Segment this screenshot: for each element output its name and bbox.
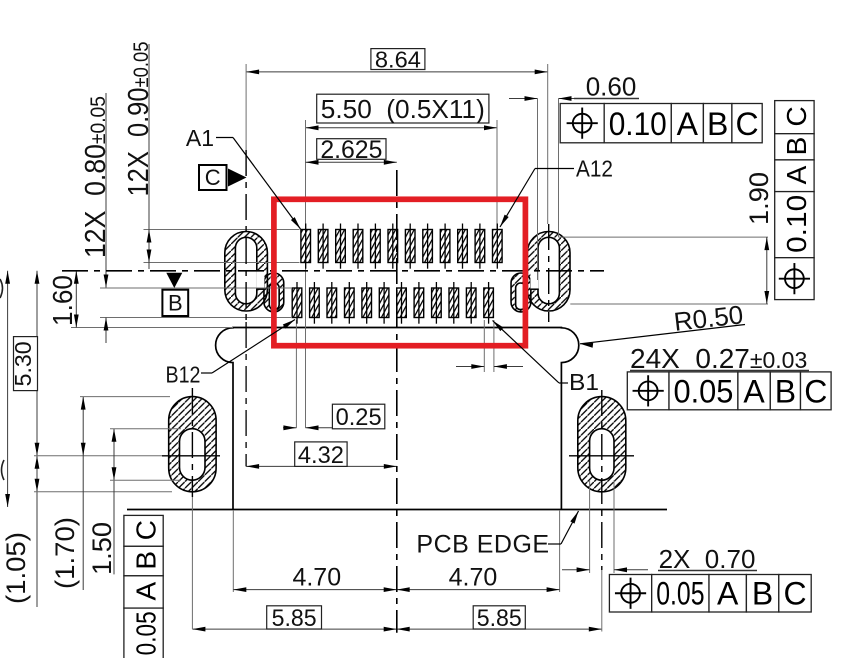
svg-text:C: C — [804, 373, 827, 409]
dimension 5.50 line — [306, 125, 498, 130]
svg-text:A: A — [130, 582, 161, 601]
dimension 1.60 line — [74, 271, 79, 328]
label PCB EDGE — [416, 511, 578, 559]
dimension 24X 0.27 arrows — [456, 364, 523, 369]
dimension text 1.60 — [47, 275, 78, 326]
label A12 — [500, 156, 613, 228]
dimension text 4.32 — [295, 442, 347, 469]
dimension text 0.60 — [574, 72, 639, 102]
extension 1.90 bottom — [570, 303, 768, 305]
FCF vertical 0.10 A B C (right) — [775, 101, 814, 300]
dimension 8.64 line — [246, 70, 548, 75]
mount pad B1-side oval — [578, 397, 626, 492]
dimension text (1.70) — [50, 517, 80, 589]
svg-text:A: A — [781, 165, 812, 184]
svg-text:(1.05): (1.05) — [1, 532, 31, 604]
dimension 12X 0.80 line — [104, 93, 109, 343]
svg-text:A12: A12 — [576, 156, 613, 182]
svg-text:0.10: 0.10 — [609, 106, 667, 142]
dimension text 5.50 (0.5X11) — [317, 94, 489, 124]
extension 5.50 right (pad A12 center) — [496, 120, 498, 230]
shell slot right (plated) — [511, 232, 570, 313]
extension slot center below — [245, 322, 247, 466]
extension (1.05) bottom / oval bottom — [34, 491, 172, 493]
extension pad B1 right — [493, 320, 495, 372]
dimension 4.70 left — [233, 587, 396, 592]
left slot centerline — [245, 150, 247, 322]
svg-text:5.85: 5.85 — [477, 605, 522, 632]
svg-text:8.64: 8.64 — [375, 46, 421, 72]
extension 5.50 left (pad A1 center) — [305, 120, 307, 428]
extension oval slot left edge — [589, 480, 591, 573]
cut-off paren of (6.70) text — [0, 279, 4, 480]
extension body left edge below — [232, 510, 234, 592]
svg-text:5.50 (0.5X11): 5.50 (0.5X11) — [321, 94, 485, 124]
dimension text 5.85 left — [267, 605, 322, 632]
red highlight box — [274, 199, 526, 345]
vertical centerline — [396, 170, 398, 633]
extension oval slot right edge — [613, 480, 615, 573]
datum C symbol — [199, 165, 247, 190]
extension slot hole right edge — [558, 99, 560, 238]
dimension 5.30 line — [35, 271, 40, 607]
dimension text 2.625 — [317, 136, 386, 164]
svg-text:B: B — [781, 137, 812, 156]
datum B symbol — [162, 273, 188, 316]
body flange top extension (1.60) — [71, 327, 233, 329]
pad row A (A1-A12, hatched SMT pads) — [301, 224, 502, 269]
svg-text:C: C — [130, 520, 161, 540]
dimension text 8.64 — [371, 46, 425, 72]
dimension 0.25 line — [283, 425, 332, 430]
dimension text 12X 0.80±0.05 — [80, 96, 112, 258]
FCF position 0.10 A B C (top right) — [560, 104, 762, 143]
svg-text:A: A — [717, 576, 739, 612]
left oval centerline — [191, 388, 193, 629]
svg-text:C: C — [783, 576, 806, 612]
extension 1.50 top / slot top — [110, 428, 181, 430]
extension line 12X0.80 bottom (pad row B bottom) — [100, 317, 291, 319]
svg-text:0.60: 0.60 — [586, 72, 637, 102]
label A1 — [186, 125, 301, 229]
dimension text 4.70 left — [292, 564, 341, 592]
svg-text:C: C — [205, 165, 221, 190]
svg-text:1.60: 1.60 — [47, 275, 78, 326]
extension 1.90 top — [559, 236, 769, 238]
right slot centerline — [548, 224, 550, 322]
svg-text:0.05: 0.05 — [656, 576, 704, 612]
oval center horizontal extension — [34, 455, 220, 457]
extension line 12X0.90 top (pad row A top) — [144, 229, 300, 231]
extension 8.64 right (slot center) — [547, 64, 549, 224]
dimension text 0.25 — [332, 404, 384, 431]
dimension (1.70) line — [81, 397, 86, 590]
svg-text:B: B — [752, 576, 773, 612]
svg-text:0.25: 0.25 — [336, 404, 382, 431]
dimension text 2X 0.70 — [658, 544, 757, 574]
dimension 4.70 right — [397, 587, 560, 592]
dimension text 24X 0.27±0.03 — [630, 343, 809, 374]
dimension text 5.85 right — [473, 605, 525, 632]
FCF position 0.05 A B C (24X pads) — [627, 372, 831, 410]
svg-text:4.70: 4.70 — [292, 564, 341, 592]
svg-text:4.32: 4.32 — [298, 442, 344, 469]
svg-text:4.70: 4.70 — [449, 564, 498, 592]
dimension text 1.90 — [744, 172, 774, 225]
svg-text:A: A — [743, 373, 765, 409]
right oval centerline — [601, 390, 603, 632]
right oval horizontal center tick — [569, 455, 634, 457]
pad row B (B12-B1, hatched SMT pads) — [292, 282, 493, 324]
PCB edge line — [127, 509, 667, 511]
svg-text:24X 0.27±0.03: 24X 0.27±0.03 — [630, 343, 807, 374]
label B1 — [493, 321, 600, 396]
svg-text:PCB EDGE: PCB EDGE — [416, 531, 549, 559]
svg-text:5.30: 5.30 — [10, 341, 36, 386]
svg-text:B: B — [707, 106, 728, 142]
extension pad B1 left — [483, 320, 485, 372]
svg-text:C: C — [735, 106, 758, 142]
dimension 4.32 line — [246, 464, 397, 469]
FCF vertical 0.05 A B C (bottom left) — [124, 515, 163, 658]
svg-text:B: B — [130, 551, 161, 570]
svg-text:B: B — [168, 291, 183, 316]
horizontal centerline — [62, 270, 604, 272]
svg-text:0.10: 0.10 — [781, 195, 812, 253]
extension body right edge below — [559, 510, 561, 592]
svg-text:2.625: 2.625 — [320, 136, 382, 164]
svg-text:(1.70): (1.70) — [50, 517, 80, 589]
FCF position 0.05 A B C (2X ovals) — [609, 575, 811, 613]
dimension 2.625 line — [306, 160, 397, 165]
svg-text:2X 0.70: 2X 0.70 — [659, 544, 756, 574]
dimension 5.85 left — [192, 627, 396, 632]
extension line 12X0.90 bottom (pad row A bottom) — [144, 262, 300, 264]
shell slot left (plated) — [225, 232, 284, 313]
svg-text:0.05: 0.05 — [130, 611, 161, 655]
extension slot hole left edge — [537, 99, 539, 281]
svg-text:A: A — [677, 106, 699, 142]
dimension 5.85 right — [397, 627, 602, 632]
dimension (1.05) arrows — [35, 456, 40, 492]
dimension text 4.70 right — [449, 564, 498, 592]
dimension text 12X 0.90±0.05 — [123, 42, 155, 197]
svg-text:C: C — [781, 106, 812, 126]
extension line 12X0.80 top (pad row B top) — [100, 287, 291, 289]
dimension 12X 0.90 line — [147, 44, 152, 269]
dimension 1.90 line — [764, 237, 769, 304]
svg-text:0.05: 0.05 — [674, 373, 734, 409]
dimension 0.60 — [509, 96, 639, 101]
dimension 1.50 line — [112, 429, 117, 575]
label R0.50 — [580, 299, 745, 347]
svg-text:5.85: 5.85 — [272, 605, 317, 632]
svg-text:B12: B12 — [166, 362, 201, 388]
extension pad B12 center — [295, 320, 297, 428]
dimension (6.70) line at left edge — [5, 271, 10, 507]
svg-text:1.50: 1.50 — [87, 522, 117, 575]
svg-text:B1: B1 — [569, 369, 599, 395]
dimension 2X 0.70 arrows — [562, 567, 648, 572]
svg-text:1.90: 1.90 — [744, 172, 774, 225]
extension 8.64 left (slot center) — [245, 64, 247, 150]
dimension text 1.50 — [87, 522, 117, 575]
extension 1.50 bottom / slot bottom — [110, 479, 181, 481]
extension (1.70) top / oval top — [80, 396, 170, 398]
dimension text 5.30 — [10, 337, 38, 391]
label B12 — [166, 320, 296, 388]
dimension text (1.05) — [1, 532, 31, 604]
mount pad B12-side oval — [169, 397, 216, 492]
connector body outline — [216, 328, 579, 510]
svg-text:B: B — [775, 373, 796, 409]
svg-text:A1: A1 — [186, 125, 214, 151]
